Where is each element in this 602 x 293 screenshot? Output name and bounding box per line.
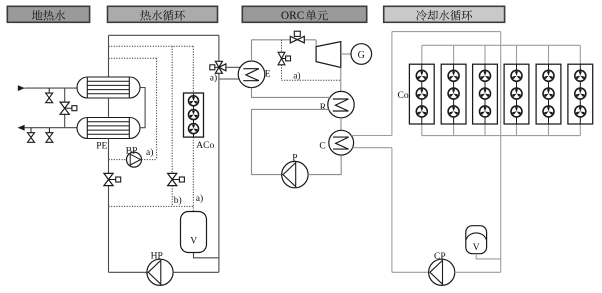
wire: valve to evaporator E upper — [226, 66, 241, 68]
cooling tower cell 4 with fans — [516, 45, 518, 64]
wire: C lower port to return riser — [353, 147, 392, 149]
wire: cooling towers top header — [422, 44, 581, 46]
wire: turbine exhaust to recuperator — [340, 68, 342, 92]
wire: ORC bus to turbine — [252, 39, 317, 41]
svg-text:V: V — [190, 237, 197, 247]
wire: dotted turbine bypass — [281, 40, 283, 53]
air cooler ACo housing — [184, 93, 204, 137]
wire: geothermal return line from PE — [24, 127, 77, 129]
wire: hot water top bus — [109, 34, 219, 36]
svg-text:b): b) — [174, 195, 182, 206]
drain valve 2 on return line — [48, 128, 50, 133]
cooling tower cell 1 with fans — [421, 45, 423, 64]
condenser C — [329, 130, 354, 155]
svg-text:C: C — [319, 141, 325, 151]
svg-text:Co: Co — [398, 91, 409, 101]
wire: drop to three-way valve — [218, 35, 220, 61]
svg-text:a): a) — [293, 70, 300, 81]
wire: cooling top line — [392, 31, 501, 33]
wire: HX1 to HX2 center connector — [108, 98, 110, 118]
wire: valve bottom drop — [218, 73, 220, 79]
motor valve before turbine — [290, 36, 297, 43]
svg-text:a): a) — [210, 72, 217, 83]
wire: tank V outlet — [194, 253, 219, 258]
wire: turbine to generator shaft — [341, 53, 351, 55]
wire: geothermal bypass drop — [64, 88, 66, 128]
wire: dotted branch b) vertical — [171, 46, 173, 173]
motor valve on hot water downcomer — [104, 173, 113, 179]
svg-text:CP: CP — [434, 252, 446, 262]
three-way motor valve at evaporator — [215, 61, 222, 67]
wire: riser from HX1 top to hot bus — [108, 35, 110, 77]
wire: HP suction line — [109, 271, 147, 273]
wire: dotted BP suction line — [109, 159, 127, 161]
pump CP — [429, 259, 455, 285]
wire: R lower port to pump P — [252, 109, 329, 174]
wire: cooling return riser — [391, 148, 393, 273]
svg-text:ORC: ORC — [281, 10, 304, 22]
recuperator R — [328, 91, 354, 117]
wire: turbine inlet drop — [315, 40, 317, 47]
bypass valve — [278, 52, 285, 58]
tank V cooling loop — [466, 226, 487, 254]
wire: evaporator return downcomer — [218, 79, 220, 272]
wire: HP discharge line — [173, 271, 219, 273]
wire: cooling tank V connection — [476, 254, 501, 259]
evaporator E — [238, 61, 265, 88]
pump P — [282, 161, 308, 187]
section header: geothermal water (地热水) — [7, 6, 89, 22]
wire: dotted bottom header D6 — [109, 205, 194, 207]
svg-text:a): a) — [146, 147, 153, 158]
wire: CP suction line — [392, 271, 429, 273]
wire: dotted BP discharge — [142, 159, 157, 161]
turbine — [316, 42, 341, 68]
wire: main hot water downcomer — [108, 139, 110, 273]
generator G — [351, 44, 372, 65]
section header: hot water loop (热水循环) — [108, 6, 218, 22]
wire: cooling supply riser — [391, 32, 393, 136]
svg-text:G: G — [358, 50, 365, 61]
cooling tower cell 3 with fans — [484, 45, 486, 64]
pump HP — [147, 259, 173, 285]
svg-text:BP: BP — [126, 146, 138, 156]
svg-text:R: R — [320, 103, 327, 113]
wire: C bottom to pump P — [308, 155, 341, 175]
drain valve 1 on return line — [30, 128, 32, 133]
svg-text:a): a) — [196, 193, 203, 204]
svg-text:V: V — [473, 243, 480, 253]
wire: CP discharge line — [455, 271, 501, 273]
wire: cooling downpipe — [500, 32, 502, 273]
fan 3 of ACo — [189, 124, 199, 134]
section header: ORC unit (ORC单元) — [242, 6, 366, 22]
drain valve on supply line — [48, 88, 50, 93]
wire: evaporator E hot outlet — [219, 78, 239, 80]
tank V hot loop — [181, 212, 207, 253]
cooling tower cell 2 with fans — [453, 45, 455, 64]
wire: R to condenser C — [340, 118, 342, 131]
fan 2 of ACo — [189, 110, 199, 120]
wire: dotted branch D2 — [109, 57, 157, 59]
wire: dotted branch D1 to ACo top — [109, 45, 194, 47]
wire: C to cooling supply riser — [351, 135, 392, 137]
geothermal outlet arrow — [18, 125, 25, 131]
geothermal inlet arrow — [18, 85, 25, 91]
wire: E top to ORC bus — [251, 40, 253, 61]
motor valve on branch b) — [168, 173, 177, 179]
heat exchanger PE lower shell — [77, 118, 140, 139]
svg-text:E: E — [265, 69, 271, 79]
svg-text:P: P — [292, 153, 297, 163]
fan 1 of ACo — [189, 96, 199, 106]
wire: cooling towers bottom header — [422, 135, 581, 137]
motor valve on geothermal bypass — [60, 102, 69, 108]
wire: dotted ACo bottom drop D5 — [192, 137, 194, 211]
cooling tower cell 6 with fans — [579, 45, 581, 64]
section header: cooling water loop (冷却水循环) — [384, 6, 505, 22]
svg-text:PE: PE — [96, 142, 107, 152]
pump BP — [127, 152, 142, 167]
svg-text:HP: HP — [151, 252, 163, 262]
svg-text:ACo: ACo — [196, 141, 214, 151]
cooling tower cell 5 with fans — [548, 45, 550, 64]
wire: HX1 right to HX2 right connector — [140, 88, 145, 128]
wire: E bottom to R upper port — [252, 88, 331, 98]
wire: geothermal supply line to PE — [25, 87, 79, 89]
heat exchanger PE upper shell — [77, 77, 140, 98]
